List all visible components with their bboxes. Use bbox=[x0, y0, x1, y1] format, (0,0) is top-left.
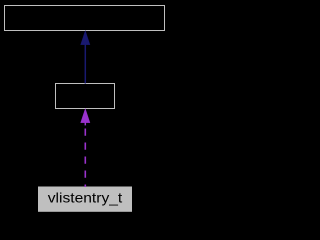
svg-text:vlistentry_t: vlistentry_t bbox=[48, 190, 123, 205]
